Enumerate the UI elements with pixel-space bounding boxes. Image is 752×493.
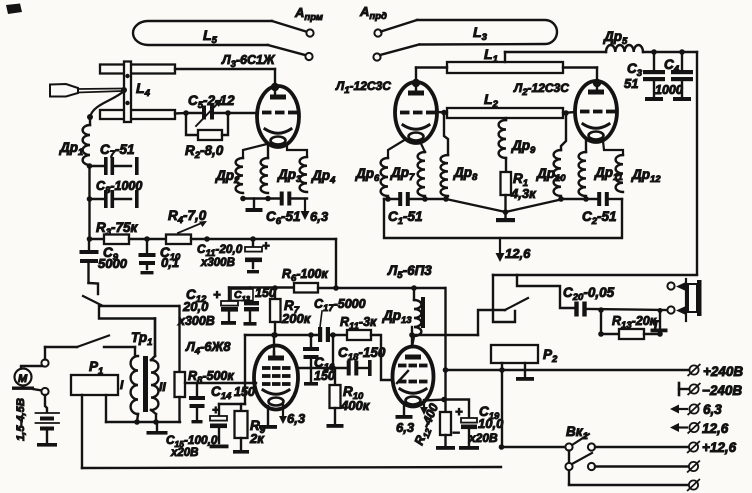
svg-text:6,3: 6,3	[396, 420, 415, 435]
svg-text:х20В: х20В	[170, 447, 199, 459]
svg-text:150: 150	[314, 369, 335, 383]
svg-text:II: II	[159, 380, 166, 394]
svg-text:0,1: 0,1	[161, 255, 179, 270]
svg-text:400к: 400к	[340, 398, 371, 413]
svg-text:51: 51	[624, 76, 638, 91]
svg-text:+: +	[212, 403, 219, 417]
svg-text:10,0: 10,0	[478, 416, 504, 431]
svg-text:1000: 1000	[655, 83, 683, 97]
svg-text:х300В: х300В	[177, 314, 215, 328]
svg-text:1,5-4,5В: 1,5-4,5В	[15, 398, 27, 441]
svg-text:+: +	[262, 238, 270, 253]
svg-text:−: −	[452, 425, 460, 440]
svg-text:200к: 200к	[281, 311, 312, 326]
svg-text:6,3: 6,3	[287, 411, 306, 426]
svg-text:20,0: 20,0	[182, 299, 209, 314]
svg-text:5000: 5000	[98, 256, 128, 271]
svg-text:+240В: +240В	[703, 364, 743, 379]
svg-text:2к: 2к	[249, 431, 265, 446]
svg-text:−240В: −240В	[702, 383, 742, 398]
svg-text:х300В: х300В	[200, 257, 235, 269]
svg-text:6,3: 6,3	[703, 402, 722, 417]
svg-text:4,3к: 4,3к	[510, 186, 537, 201]
svg-text:х20В: х20В	[468, 431, 498, 445]
svg-text:М: М	[18, 373, 28, 385]
svg-text:6,3: 6,3	[310, 209, 329, 224]
svg-text:+: +	[213, 287, 221, 302]
svg-text:12,6: 12,6	[702, 421, 729, 436]
svg-text:+: +	[455, 404, 463, 419]
svg-text:12,6: 12,6	[505, 246, 531, 261]
svg-text:+12,6: +12,6	[702, 440, 737, 455]
